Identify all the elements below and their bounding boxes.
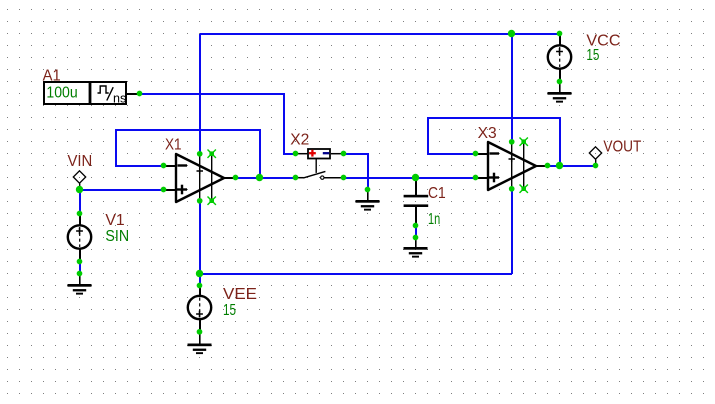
wire VIN node down to V1 — [79, 190, 81, 214]
wire switch to X3 + input — [344, 177, 476, 179]
svg-text:VEE: VEE — [223, 286, 257, 303]
pin X2 control - — [341, 151, 347, 157]
no-connect marker X1 pin A — [208, 150, 216, 158]
no-connect marker X3 pin A — [520, 138, 528, 146]
wire X1 V+ supply — [199, 34, 201, 154]
pin ground X2 — [365, 187, 371, 193]
X3 V+ pin marker — [509, 158, 516, 160]
pin VEE top — [197, 283, 203, 289]
op-amp X3 — [475, 142, 548, 191]
wire X1 V- to VEE rail — [199, 201, 201, 274]
op-amp X1 — [163, 154, 236, 203]
wire X2 control - to ground — [344, 154, 368, 190]
pin C1 bottom — [413, 223, 419, 229]
pin X2 pole right — [341, 175, 347, 181]
wire VEE to rail — [199, 274, 201, 286]
behavioural source A1 — [44, 82, 139, 106]
capacitor C1 — [404, 178, 429, 225]
svg-text:ns: ns — [113, 91, 127, 106]
X2 switch blade — [295, 177, 304, 179]
X2 control + marker — [309, 152, 316, 154]
wire VEE bottom rail — [200, 273, 512, 275]
voltage source VEE — [188, 285, 211, 332]
ground (C1) — [404, 237, 428, 258]
svg-text:C1: C1 — [428, 185, 446, 202]
svg-text:15: 15 — [586, 47, 599, 64]
svg-text:A1: A1 — [43, 67, 61, 84]
svg-text:1n: 1n — [428, 211, 440, 228]
ground (V1) — [68, 273, 92, 295]
X1 inverting input marker — [178, 164, 188, 166]
pin X3 output — [545, 163, 551, 169]
X1 V+ pin marker — [197, 170, 204, 172]
wire V1 to ground — [79, 262, 81, 274]
svg-text:VIN: VIN — [68, 153, 93, 170]
X2 control - marker — [323, 152, 329, 154]
no-connect marker X3 pin B — [520, 185, 528, 193]
svg-text:V1: V1 — [105, 212, 124, 229]
svg-text:X1: X1 — [165, 137, 182, 154]
wire VCC top rail — [200, 33, 512, 35]
pin VOUT — [593, 163, 599, 169]
pin VCC top — [557, 31, 563, 37]
svg-text:100u: 100u — [46, 85, 77, 102]
voltage source V1 — [68, 213, 91, 261]
pin X1 V- — [197, 198, 203, 204]
pin VCC bottom — [557, 79, 563, 85]
junction node C1/signal — [412, 174, 419, 181]
wire C1 to ground — [415, 226, 417, 238]
pin X1 inverting — [161, 163, 167, 169]
pin V1 bottom — [77, 259, 83, 265]
svg-text:X3: X3 — [478, 125, 497, 142]
wire X3 V+ supply — [511, 34, 513, 142]
svg-text:X2: X2 — [290, 131, 309, 148]
voltage source VCC — [548, 33, 571, 81]
pin ground C1 — [413, 235, 419, 241]
wire X3 V- supply — [511, 189, 513, 274]
svg-text:SIN: SIN — [105, 228, 129, 245]
wire X3 output to VOUT — [548, 165, 596, 167]
wire A1 out to X2 control + — [140, 94, 296, 154]
pin X1 output — [233, 175, 239, 181]
svg-text:VOUT: VOUT — [603, 138, 641, 155]
pin X2 control + — [293, 151, 299, 157]
pin X3 non-inverting — [473, 175, 479, 181]
pin X3 V+ — [509, 139, 515, 145]
pin X1 non-inverting — [161, 187, 167, 193]
pin X2 pole left — [293, 175, 299, 181]
X2 control stem — [315, 159, 317, 173]
junction node X3 output/feedback — [556, 162, 563, 169]
no-connect marker X1 pin B — [208, 197, 216, 205]
junction node VEE rail — [196, 270, 203, 277]
pin X3 V- — [509, 186, 515, 192]
junction node VCC rail — [508, 30, 515, 37]
X3 inverting input marker — [490, 152, 500, 154]
pin ground V1 — [77, 271, 83, 277]
wire X3 feedback loop — [428, 118, 560, 166]
wire X1 feedback loop — [116, 130, 260, 178]
pin A1 out — [137, 91, 143, 97]
svg-text:15: 15 — [223, 302, 236, 319]
X3 non-inverting input marker — [489, 176, 499, 178]
X1 non-inverting input marker — [177, 188, 187, 190]
pin V1 top — [77, 211, 83, 217]
switch X2 — [295, 149, 343, 179]
wire VIN node to X1 + input — [80, 189, 164, 191]
pin VEE bottom — [197, 329, 203, 335]
ground (VEE) — [188, 332, 212, 355]
ground (VCC) — [548, 81, 572, 103]
junction node X1 output/feedback — [256, 174, 263, 181]
port VOUT — [589, 147, 601, 165]
ground (X2 control) — [356, 189, 380, 211]
wire VCC feed — [512, 33, 560, 35]
port VIN — [73, 171, 85, 189]
pin X1 V+ — [197, 151, 203, 157]
wire X1 output to switch — [236, 177, 296, 179]
pin X3 inverting — [473, 151, 479, 157]
junction node VIN — [76, 186, 83, 193]
